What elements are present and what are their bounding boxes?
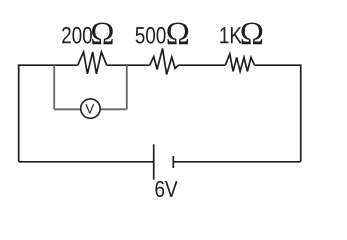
wire: top rail between R2 and R3: [178, 64, 225, 66]
label R2 unit ohm: [167, 23, 188, 45]
wire: top rail left segment: [19, 64, 78, 66]
label R3 unit ohm: [241, 23, 262, 45]
voltmeter M1 letter V: [85, 104, 94, 113]
battery B1 long plate (positive): [153, 144, 155, 179]
label R1 unit ohm: [92, 23, 113, 45]
resistor R3 1K ohm zigzag: [225, 54, 254, 71]
wire: voltmeter branch bottom-right horizontal: [100, 108, 127, 110]
label R1 value 200: [62, 27, 92, 44]
label battery value 6V: [155, 181, 177, 197]
voltmeter M1 circle: [81, 99, 100, 118]
wire: voltmeter branch right vertical: [126, 65, 128, 109]
wire: voltmeter branch bottom-left horizontal: [54, 108, 81, 110]
battery B1 short plate (negative): [172, 156, 174, 168]
wire: left vertical: [18, 64, 20, 161]
wire: bottom rail left of battery: [19, 161, 154, 163]
wire: right vertical: [300, 64, 302, 161]
resistor R2 500 ohm zigzag: [150, 48, 179, 74]
wire: voltmeter branch left vertical: [53, 65, 55, 109]
wire: top rail between R1 and R2: [107, 64, 150, 66]
label R3 value 1K: [220, 27, 241, 43]
wire: top rail right segment: [255, 64, 301, 66]
label R2 value 500: [136, 27, 166, 44]
wire: bottom rail right of battery: [173, 161, 300, 163]
resistor R1 200 ohm zigzag: [78, 52, 107, 74]
